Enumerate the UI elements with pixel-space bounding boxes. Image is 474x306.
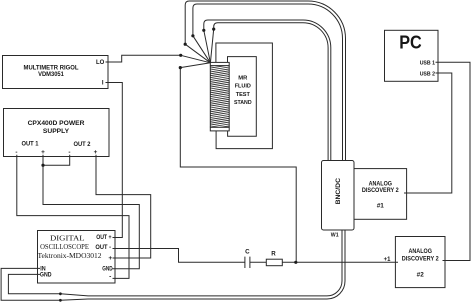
- svg-text:USB 2: USB 2: [420, 71, 435, 77]
- svg-text:DISCOVERY 2: DISCOVERY 2: [362, 187, 399, 194]
- resistor R: [266, 259, 282, 266]
- wire fan line from node F to coil: [210, 29, 213, 63]
- MR fluid test stand label: [234, 75, 252, 106]
- multimeter U1 label: [24, 65, 79, 78]
- wire fan line from node A to coil: [181, 55, 211, 63]
- svg-text:+: +: [108, 255, 112, 262]
- wire OUT2+ to oscilloscope plus: [96, 155, 151, 258]
- svg-text:GND: GND: [40, 272, 52, 279]
- wire PC USB1 to AD2: [436, 62, 471, 260]
- analog discovery AD1 box: [354, 169, 407, 220]
- BNC/DC converter box: [322, 161, 355, 231]
- multimeter U1 box: [3, 56, 109, 89]
- coil L1 top cap: [210, 62, 229, 65]
- junction node D: [191, 34, 194, 37]
- terminal OUT1 minus sign: [15, 149, 17, 156]
- svg-text:Tektronix-MDO3012: Tektronix-MDO3012: [38, 251, 102, 260]
- svg-text:OUT +: OUT +: [96, 234, 111, 241]
- pin +1 label: [384, 257, 392, 263]
- svg-text:CPX400D POWER: CPX400D POWER: [28, 120, 85, 127]
- svg-text:DISCOVERY 2: DISCOVERY 2: [402, 255, 439, 262]
- terminal OUT2 plus sign: [94, 149, 98, 156]
- wire node F up over to BNC top pin 1: [214, 23, 328, 161]
- pin minus label: [109, 274, 111, 281]
- PC label: [399, 31, 422, 52]
- wire BNC W1 line 1 to oscilloscope GND: [8, 230, 342, 296]
- PC box: [385, 30, 439, 81]
- svg-text:#1: #1: [377, 202, 385, 209]
- wire capacitor to resistor: [250, 261, 266, 263]
- power supply PS1 box: [4, 109, 110, 157]
- wire fan line from node D to coil: [193, 36, 211, 63]
- capacitor C: [245, 257, 250, 268]
- wire fan line from node C to coil: [185, 44, 210, 63]
- pin GND left label: [40, 272, 52, 279]
- svg-text:TEST: TEST: [236, 92, 251, 98]
- wire node B down to C-R node: [180, 68, 296, 263]
- terminal OUT1 label: [22, 140, 39, 147]
- coil L1 bottom cap: [210, 127, 229, 131]
- wire jumper OUT2- to OUT1+: [43, 155, 70, 165]
- junction probe dot GND: [59, 292, 62, 295]
- svg-text:MR: MR: [238, 75, 248, 81]
- analog discovery AD1 label: [362, 181, 399, 210]
- pin plus label: [108, 255, 112, 262]
- port USB2 label: [420, 71, 435, 77]
- pin LO label: [96, 60, 105, 66]
- MR fluid test stand outer core loop: [216, 43, 273, 149]
- wire node D up over to BNC top pin 3: [193, 4, 343, 161]
- svg-text:I: I: [102, 80, 104, 86]
- svg-text:BNC/DC: BNC/DC: [335, 178, 342, 205]
- pin IN label: [40, 265, 46, 272]
- pin OUT- label: [95, 244, 111, 251]
- analog discovery AD2 label: [402, 248, 439, 278]
- junction node A: [179, 54, 182, 57]
- terminal OUT2 label: [74, 141, 91, 148]
- BNC/DC label: [335, 178, 342, 205]
- svg-text:OUT 1: OUT 1: [22, 140, 39, 147]
- svg-text:MULTIMETR RIGOL: MULTIMETR RIGOL: [24, 65, 79, 71]
- svg-text:OUT 2: OUT 2: [74, 141, 91, 148]
- svg-text:PC: PC: [399, 31, 422, 52]
- wire fan line from node B to coil: [180, 63, 210, 68]
- wire OUT1+ to oscilloscope GND: [43, 155, 139, 269]
- oscilloscope U2 label: [38, 234, 102, 261]
- svg-text:GND: GND: [102, 265, 113, 272]
- junction node C: [184, 43, 187, 46]
- wire LO to node A: [106, 55, 181, 62]
- svg-text:R: R: [271, 251, 276, 258]
- power supply PS1 label: [28, 120, 85, 135]
- analog discovery AD2 box: [395, 237, 445, 288]
- MR fluid test stand inner core loop: [228, 57, 257, 137]
- svg-text:C: C: [245, 249, 250, 256]
- wire fan line from node E to coil: [204, 30, 211, 63]
- svg-text:VDM3051: VDM3051: [38, 72, 64, 78]
- node W1 label: [331, 232, 339, 238]
- svg-text:STAND: STAND: [234, 100, 252, 106]
- svg-text:USB 1: USB 1: [420, 61, 435, 67]
- wire BNC W1 line 2 to oscilloscope IN: [1, 230, 345, 300]
- wire PC USB2 to AD1: [404, 73, 452, 193]
- junction node E: [202, 29, 205, 32]
- svg-text:ANALOG: ANALOG: [409, 248, 432, 255]
- terminal OUT1 plus sign: [41, 149, 45, 156]
- terminal OUT2 minus sign: [68, 149, 70, 156]
- svg-text:OSCILLOSCOPE: OSCILLOSCOPE: [40, 242, 89, 251]
- wire node C up over to BNC top pin 4: [185, 1, 345, 161]
- wire oscilloscope OUT- to capacitor: [113, 249, 245, 263]
- svg-text:#2: #2: [417, 271, 425, 278]
- junction node B: [179, 66, 182, 69]
- oscilloscope U2 box: [38, 231, 116, 284]
- svg-text:FLUID: FLUID: [235, 84, 251, 90]
- svg-text:LO: LO: [96, 60, 105, 66]
- wire OUT1- to oscilloscope minus: [17, 155, 129, 279]
- capacitor C label: [245, 249, 250, 256]
- junction OUT1+ node: [41, 164, 44, 167]
- pin I label: [102, 80, 104, 86]
- wire resistor to AD2 +1 input: [282, 261, 398, 263]
- junction C-R node: [294, 261, 297, 264]
- port USB1 label: [420, 61, 435, 67]
- resistor R label: [271, 251, 276, 258]
- svg-text:W1: W1: [331, 232, 339, 238]
- pin GND right label: [102, 265, 113, 272]
- svg-text:SUPPLY: SUPPLY: [43, 128, 70, 135]
- wire I to oscilloscope OUT+: [106, 83, 123, 238]
- junction probe dot IN: [59, 299, 62, 302]
- svg-text:OUT -: OUT -: [95, 244, 111, 251]
- junction node F: [212, 28, 215, 31]
- coil L1 hatched body: [210, 63, 229, 131]
- pin OUT+ label: [96, 234, 111, 241]
- svg-text:-: -: [109, 274, 111, 281]
- wire node E up over to BNC top pin 2: [204, 20, 331, 161]
